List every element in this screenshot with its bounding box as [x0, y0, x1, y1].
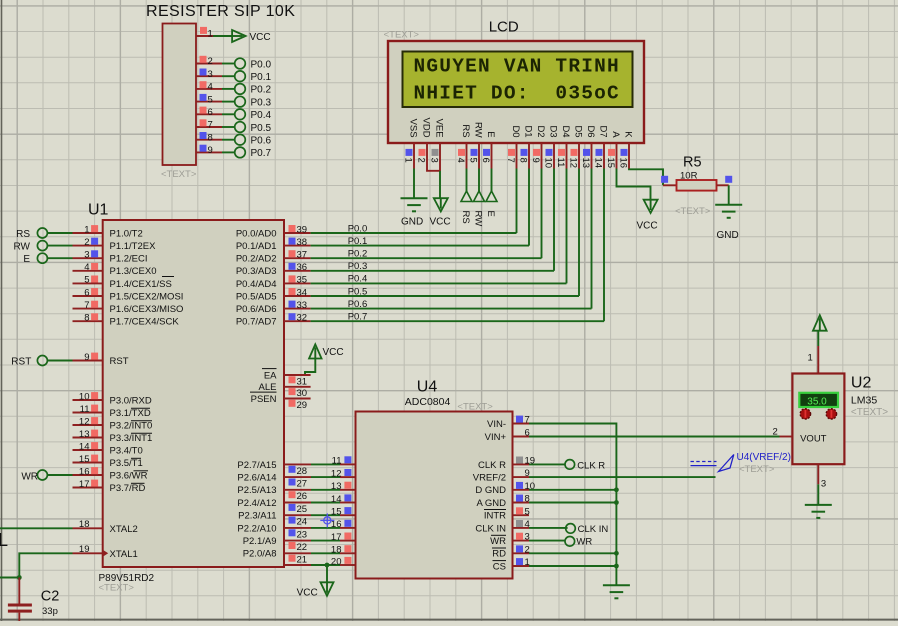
- svg-text:L: L: [0, 530, 8, 550]
- resistor RN1 pin 4: [196, 81, 222, 92]
- resistor RN1 body: [163, 24, 197, 166]
- svg-text:ALE: ALE: [259, 382, 277, 393]
- terminal E (U1 left): [23, 253, 47, 265]
- display LCD1 pin 4 (RS): [455, 124, 471, 168]
- svg-text:XTAL1: XTAL1: [110, 549, 138, 560]
- wire RN1 pin 7 to terminal P0.5: [222, 126, 235, 128]
- U1 pin 32 (P0.7/AD7): [236, 313, 311, 328]
- svg-text:35: 35: [297, 275, 308, 286]
- U1 pin 30 (ALE): [259, 382, 311, 399]
- svg-text:U4: U4: [417, 379, 438, 396]
- origin marker (blue crosshair): [320, 513, 334, 527]
- wire P0.0 net: [311, 232, 517, 234]
- wire LCD D2 to P0.2 vertical: [541, 169, 543, 259]
- svg-text:6: 6: [208, 107, 213, 118]
- svg-text:VCC: VCC: [323, 347, 344, 358]
- svg-text:19: 19: [79, 544, 90, 555]
- terminal RST: [11, 356, 47, 368]
- U2 pin 3: [818, 464, 826, 489]
- svg-text:P0.5: P0.5: [251, 123, 272, 134]
- U4 pin 18 (DB0(LSB)): [331, 545, 405, 560]
- svg-text:P1.3/CEX0: P1.3/CEX0: [110, 266, 157, 277]
- display LCD1 screen: [403, 52, 633, 108]
- svg-text:5: 5: [525, 506, 530, 517]
- svg-text:P2.6/A14: P2.6/A14: [237, 473, 276, 484]
- terminal RS (U1 left): [16, 228, 47, 240]
- svg-text:2: 2: [208, 56, 213, 67]
- U4 pin 16 (DB2): [331, 519, 381, 534]
- wire P0.5 net: [311, 295, 579, 297]
- terminal P0.2 (SIP): [235, 84, 272, 96]
- terminal P0.3 (SIP): [235, 96, 272, 108]
- U1 pin 29 (PSEN): [251, 394, 311, 411]
- U1 pin 16 (P3.6/WR): [73, 466, 148, 481]
- svg-text:P2.5/A13: P2.5/A13: [237, 485, 276, 496]
- svg-text:P0.4: P0.4: [348, 274, 368, 285]
- svg-text:U2: U2: [851, 375, 872, 392]
- overline INT1: [131, 432, 152, 434]
- svg-text:D5: D5: [573, 125, 584, 137]
- terminal P0.0 (SIP): [235, 58, 272, 70]
- svg-text:P0.1: P0.1: [348, 236, 368, 247]
- wire terminal WR to U1 pin 16: [47, 474, 72, 476]
- U4 pin 7 (VIN-): [487, 415, 530, 430]
- U4 pin 12 (DB6): [331, 468, 381, 483]
- svg-text:8: 8: [208, 132, 213, 143]
- svg-text:<TEXT>: <TEXT>: [851, 407, 888, 418]
- terminal P0.4 (SIP): [235, 109, 272, 121]
- svg-text:RD: RD: [492, 549, 506, 560]
- wire VCC to EA: [305, 359, 315, 376]
- svg-text:VIN-: VIN-: [487, 419, 506, 430]
- svg-text:34: 34: [297, 287, 308, 298]
- U2 down knob: [826, 409, 836, 419]
- svg-text:P0.6: P0.6: [348, 299, 368, 310]
- svg-text:P2.2/A10: P2.2/A10: [237, 523, 276, 534]
- wire LCD D3 to P0.3 vertical: [553, 169, 555, 271]
- overline TXD: [131, 407, 150, 409]
- wire LCD RW to terminal: [478, 169, 480, 192]
- svg-text:P0.4/AD4: P0.4/AD4: [236, 279, 277, 290]
- svg-text:P0.4: P0.4: [251, 110, 272, 121]
- U4 pin 3 (WR): [490, 532, 530, 547]
- wire terminal RW to U1 pin 2: [47, 245, 72, 247]
- svg-text:14: 14: [592, 158, 603, 169]
- U1 pin 13 (P3.3/INT1): [73, 429, 153, 444]
- svg-text:3: 3: [428, 158, 439, 163]
- svg-text:WR: WR: [490, 536, 506, 547]
- power terminal VCC (U4): [297, 582, 334, 598]
- overline INTR: [484, 509, 506, 511]
- svg-text:P0.7/AD7: P0.7/AD7: [236, 317, 277, 328]
- svg-text:18: 18: [331, 545, 342, 556]
- U1 pin 31 (EA): [264, 370, 311, 387]
- svg-text:D GND: D GND: [475, 485, 506, 496]
- svg-text:P2.4/A12: P2.4/A12: [237, 498, 276, 509]
- wire P0.7 net: [311, 320, 604, 322]
- svg-text:35.0: 35.0: [807, 396, 827, 407]
- svg-text:EA: EA: [264, 370, 277, 381]
- U4 pin 4 (CLK IN): [475, 519, 529, 534]
- terminal P0.7 (SIP): [235, 147, 272, 159]
- svg-text:P3.6/WR: P3.6/WR: [110, 470, 148, 481]
- U1 pin 25 (P2.4/A12): [237, 498, 307, 515]
- svg-text:RESISTER SIP 10K: RESISTER SIP 10K: [146, 3, 295, 20]
- resistor RN1 pin 2: [196, 56, 222, 67]
- U1 pin 5 (P1.4/CEX1/SS): [73, 275, 172, 290]
- svg-text:P2.3/A11: P2.3/A11: [238, 511, 276, 522]
- display LCD1 pin 14 (D7): [592, 125, 608, 168]
- resistor RN1 pin 1: [196, 27, 213, 40]
- wire CS to bus: [529, 565, 616, 567]
- junction C2/XTAL1: [17, 575, 22, 580]
- svg-text:18: 18: [79, 519, 90, 530]
- wire RN1 pin 4 to terminal P0.2: [222, 88, 235, 90]
- display LCD1 pin 8 (D1): [517, 125, 533, 168]
- wire terminal RST to U1 pin 9: [47, 360, 72, 362]
- svg-text:3: 3: [821, 478, 826, 489]
- svg-text:16: 16: [617, 158, 628, 169]
- svg-text:P0.3: P0.3: [348, 261, 368, 272]
- ground symbol (R5): [715, 205, 742, 241]
- resistor R5 left pin: [663, 184, 677, 186]
- wire RN1 pin 2 to terminal P0.0: [222, 63, 235, 65]
- svg-text:E: E: [485, 131, 496, 137]
- svg-text:C2: C2: [41, 589, 60, 605]
- resistor RN1 pin 9: [196, 145, 222, 156]
- U1 pin 6 (P1.5/CEX2/MOSI): [73, 287, 184, 302]
- U1 pin 1 (P1.0/T2): [73, 224, 143, 239]
- U4 pin 9 (VREF/2): [473, 468, 530, 483]
- wire U1 P2 to U4 DB row 5: [284, 527, 356, 529]
- svg-text:5: 5: [84, 275, 89, 286]
- terminal RS (below LCD): [460, 191, 472, 224]
- svg-text:4: 4: [208, 82, 213, 93]
- svg-text:14: 14: [331, 494, 342, 505]
- wire VREF/2: [529, 476, 716, 478]
- svg-text:12: 12: [331, 468, 342, 479]
- wire U1 P2 to U4 DB row 4: [284, 514, 356, 516]
- U4 pin 17 (DB1): [331, 532, 381, 547]
- svg-text:P0.2: P0.2: [348, 249, 368, 260]
- wire P0.3 net: [311, 270, 554, 272]
- U2 up knob: [800, 409, 810, 419]
- power terminal VCC (LCD backlight A): [637, 200, 658, 232]
- wire LCD D1 to P0.1 vertical: [528, 169, 530, 246]
- svg-text:VIN+: VIN+: [485, 432, 507, 443]
- display LCD1 pin 3 (VEE): [428, 119, 444, 169]
- U1 pin 11 (P3.1/TXD): [73, 404, 151, 419]
- U1 pin 22 (P2.1/A9): [243, 536, 307, 553]
- resistor RN1 pin 7: [196, 119, 222, 130]
- U1 pin 34 (P0.5/AD5): [236, 287, 311, 302]
- svg-text:CS: CS: [493, 561, 506, 572]
- U2 pin 2 (VOUT): [773, 426, 793, 437]
- svg-text:27: 27: [297, 479, 308, 490]
- U1 pin 15 (P3.5/T1): [73, 454, 143, 469]
- svg-text:16: 16: [79, 466, 90, 477]
- overline CS (U4): [493, 560, 507, 562]
- svg-text:VCC: VCC: [297, 588, 318, 599]
- U1 pin 27 (P2.6/A14): [237, 473, 307, 490]
- wire LCD D0 to P0.0 vertical: [516, 169, 518, 234]
- overline WR (U4): [491, 534, 506, 536]
- U4 pin 11 (DB7(MSB)): [332, 456, 408, 471]
- terminal P0.6 (SIP): [235, 134, 272, 146]
- svg-text:7: 7: [84, 300, 89, 311]
- svg-text:CLK R: CLK R: [577, 460, 605, 471]
- wire LCD D7 to P0.7 vertical: [603, 169, 605, 322]
- svg-text:P3.2/INT0: P3.2/INT0: [110, 420, 153, 431]
- transducer U2 body LM35: [792, 374, 844, 465]
- wire LCD D6 to P0.6 vertical: [591, 169, 593, 309]
- U1 pin 8 (P1.7/CEX4/SCK): [73, 313, 180, 328]
- U1 pin 21 (P2.0/A8): [243, 549, 307, 566]
- wire RN1 pin 8 to terminal P0.6: [222, 139, 235, 141]
- resistor RN1 pin 3: [196, 69, 222, 80]
- wire LCD RS to terminal: [466, 169, 468, 192]
- svg-text:RS: RS: [16, 229, 30, 240]
- terminal P0.5 (SIP): [235, 122, 272, 134]
- display LCD1 pin 16 (K): [617, 131, 633, 168]
- overline INT0: [131, 420, 152, 422]
- wire RN1 pin 5 to terminal P0.3: [222, 101, 235, 103]
- wire LCD VSS to GND: [413, 169, 415, 199]
- svg-text:E: E: [23, 254, 30, 265]
- wire LCD A to VCC: [617, 169, 651, 201]
- overline SS (P1.4/CEX1/SS): [162, 276, 174, 278]
- svg-text:E: E: [485, 211, 496, 217]
- wire XTAL2 to left edge: [0, 527, 73, 529]
- svg-text:A GND: A GND: [476, 498, 506, 509]
- wire VCC to LM35 pin 1: [817, 331, 819, 346]
- wire left edge to C2 junction: [0, 577, 19, 579]
- svg-text:10: 10: [542, 158, 553, 169]
- svg-text:LCD: LCD: [489, 19, 519, 36]
- U2 display: [799, 393, 838, 408]
- svg-text:30: 30: [297, 388, 308, 399]
- overline WR: [134, 470, 149, 472]
- svg-text:VREF/2: VREF/2: [473, 473, 506, 484]
- svg-text:5: 5: [208, 94, 213, 105]
- svg-text:P0.3: P0.3: [251, 97, 272, 108]
- display LCD1 pin 10 (D3): [542, 125, 558, 168]
- svg-text:D6: D6: [585, 125, 596, 137]
- svg-text:P1.6/CEX3/MISO: P1.6/CEX3/MISO: [110, 304, 184, 315]
- svg-text:VCC: VCC: [430, 217, 451, 228]
- wire VIN- to ground bus: [529, 424, 616, 586]
- wire U2 pin 3 to GND: [817, 484, 819, 504]
- svg-text:D4: D4: [560, 125, 571, 137]
- resistor R5 body: [677, 180, 717, 191]
- svg-text:RST: RST: [11, 356, 31, 367]
- wire RN1 pin1 to VCC: [213, 35, 233, 37]
- svg-text:NHIET DO: 035oC: NHIET DO: 035oC: [414, 83, 620, 105]
- U1 pin 38 (P0.1/AD1): [236, 237, 311, 252]
- wire CLK R to terminal: [529, 463, 565, 465]
- svg-text:4: 4: [84, 262, 89, 273]
- svg-text:13: 13: [580, 158, 591, 169]
- svg-text:VDD: VDD: [421, 118, 432, 138]
- svg-text:1: 1: [208, 29, 213, 40]
- display LCD1 pin 2 (VDD): [415, 118, 431, 169]
- svg-text:P0.7: P0.7: [348, 312, 368, 323]
- svg-text:14: 14: [79, 441, 90, 452]
- svg-text:26: 26: [297, 491, 308, 502]
- svg-text:P0.3/AD3: P0.3/AD3: [236, 266, 277, 277]
- U1 pin 19 (XTAL1): [73, 544, 138, 560]
- power terminal VCC (EA): [309, 344, 344, 358]
- wire RN1 pin 3 to terminal P0.1: [222, 75, 235, 77]
- terminal CLK IN: [566, 524, 609, 535]
- U1 pin 12 (P3.2/INT0): [73, 416, 153, 431]
- junction A GND: [614, 500, 619, 505]
- U4 pin 10 (D GND): [475, 481, 535, 496]
- wire terminal RS to U1 pin 1: [47, 232, 72, 234]
- svg-text:D0: D0: [510, 125, 521, 137]
- U1 pin 23 (P2.2/A10): [237, 523, 307, 540]
- svg-text:3: 3: [84, 250, 89, 261]
- svg-text:VEE: VEE: [434, 119, 445, 138]
- svg-text:10: 10: [79, 391, 90, 402]
- overline RD: [131, 482, 145, 484]
- overline T1: [131, 457, 141, 459]
- svg-text:11: 11: [332, 456, 342, 467]
- svg-text:6: 6: [84, 287, 89, 298]
- svg-text:5: 5: [467, 158, 478, 163]
- svg-text:2: 2: [773, 426, 778, 437]
- terminal E (below LCD): [485, 191, 497, 217]
- svg-text:P0.7: P0.7: [251, 148, 272, 159]
- wire RN1 pin 6 to terminal P0.4: [222, 113, 235, 115]
- svg-text:P0.0/AD0: P0.0/AD0: [236, 228, 277, 239]
- resistor R5 right pin: [717, 184, 729, 186]
- wire P0.4 net: [311, 282, 567, 284]
- wire RD to bus: [529, 552, 616, 554]
- svg-text:<TEXT>: <TEXT>: [161, 169, 197, 180]
- ground symbol (LCD VSS): [401, 198, 428, 227]
- junction U4 VCC drop: [325, 563, 330, 568]
- svg-text:38: 38: [297, 237, 308, 248]
- display LCD1 body: [388, 41, 644, 143]
- wire LCD VDD/VEE to VCC: [427, 169, 440, 171]
- svg-text:33p: 33p: [42, 606, 58, 617]
- svg-text:P2.7/A15: P2.7/A15: [237, 460, 276, 471]
- wire LCD D5 to P0.5 vertical: [578, 169, 580, 297]
- svg-text:P3.7/RD: P3.7/RD: [110, 483, 146, 494]
- svg-text:WR: WR: [576, 537, 592, 548]
- svg-text:LM35: LM35: [851, 394, 877, 406]
- U1 pin 18 (XTAL2): [73, 519, 138, 535]
- display LCD1 pin 9 (D2): [530, 125, 546, 168]
- svg-text:<TEXT>: <TEXT>: [675, 206, 711, 217]
- terminal WR (U4): [565, 537, 592, 548]
- overline RD (U4): [492, 547, 506, 549]
- svg-text:RST: RST: [110, 356, 129, 367]
- svg-text:P1.5/CEX2/MOSI: P1.5/CEX2/MOSI: [110, 291, 184, 302]
- U4 pin 1 (CS): [493, 557, 530, 572]
- U1 pin 14 (P3.4/T0): [73, 441, 143, 456]
- svg-text:P1.2/ECI: P1.2/ECI: [110, 254, 148, 265]
- svg-text:15: 15: [605, 158, 616, 169]
- svg-text:P0.2/AD2: P0.2/AD2: [236, 254, 277, 265]
- svg-text:P0.1: P0.1: [251, 72, 272, 83]
- wire R5 to GND: [728, 185, 730, 204]
- svg-text:7: 7: [505, 158, 516, 163]
- svg-text:RS: RS: [460, 124, 471, 137]
- wire D GND to bus: [529, 489, 616, 491]
- ground symbol (LM35): [805, 505, 832, 518]
- wire terminal E to U1 pin 3: [47, 257, 72, 259]
- node square at R5 left: [661, 176, 668, 183]
- svg-text:36: 36: [297, 262, 308, 273]
- svg-text:1: 1: [84, 224, 89, 235]
- U1 pin 3 (P1.2/ECI): [73, 250, 148, 265]
- svg-text:33: 33: [297, 300, 308, 311]
- display LCD1 pin 12 (D5): [567, 125, 583, 168]
- svg-text:P2.1/A9: P2.1/A9: [243, 536, 277, 547]
- svg-text:3: 3: [208, 69, 213, 80]
- U1 pin 37 (P0.2/AD2): [236, 250, 311, 265]
- U4 pin 6 (VIN+): [485, 428, 530, 443]
- svg-text:<TEXT>: <TEXT>: [384, 30, 420, 41]
- wire U1 P2 to U4 DB row 1: [284, 476, 356, 478]
- U1 pin 7 (P1.6/CEX3/MISO): [73, 300, 184, 315]
- wire U1 P2 to U4 DB row 6: [284, 540, 356, 542]
- svg-text:9: 9: [208, 145, 213, 156]
- svg-text:P0.5: P0.5: [348, 286, 368, 297]
- power terminal VCC (SIP): [232, 30, 271, 43]
- svg-text:11: 11: [555, 158, 566, 168]
- wire WR to terminal: [529, 540, 565, 542]
- svg-text:39: 39: [297, 224, 308, 235]
- terminal WR (U1 left): [21, 470, 47, 482]
- svg-text:9: 9: [84, 352, 89, 363]
- overline PSEN: [250, 391, 277, 393]
- svg-text:PSEN: PSEN: [251, 394, 277, 405]
- wire LCD D4 to P0.4 vertical: [566, 169, 568, 284]
- svg-text:4: 4: [455, 158, 466, 163]
- display LCD1 pin 1 (VSS): [402, 119, 418, 169]
- svg-text:P1.1/T2EX: P1.1/T2EX: [110, 241, 157, 252]
- svg-text:17: 17: [331, 532, 342, 543]
- op-amp U1 body P89V51RD2: [103, 220, 284, 567]
- svg-text:P2.0/A8: P2.0/A8: [243, 549, 277, 560]
- svg-text:D3: D3: [548, 125, 559, 137]
- U1 pin 26 (P2.5/A13): [237, 485, 307, 502]
- terminal CLK R: [565, 460, 605, 472]
- wire RN1 pin 9 to terminal P0.7: [222, 151, 235, 153]
- wire P0.1 net: [311, 245, 529, 247]
- wire P0.6 net: [311, 308, 592, 310]
- junction D GND: [614, 487, 619, 492]
- svg-text:P3.0/RXD: P3.0/RXD: [110, 395, 152, 406]
- svg-text:7: 7: [208, 120, 213, 131]
- terminal P0.1 (SIP): [235, 71, 272, 83]
- svg-text:WR: WR: [21, 471, 38, 482]
- U1 pin 9 (RST): [73, 352, 129, 367]
- U1 pin 10 (P3.0/RXD): [73, 391, 152, 406]
- U2 pin 1: [808, 346, 819, 374]
- display LCD1 pin 13 (D6): [580, 125, 596, 168]
- svg-text:RW: RW: [473, 211, 484, 227]
- display LCD1 pin 6 (E): [480, 131, 496, 168]
- svg-text:P0.1/AD1: P0.1/AD1: [236, 241, 277, 252]
- wire U1 P2 to U4 DB row 0: [284, 463, 356, 465]
- wire VIN+ to LM35 VOUT: [529, 436, 780, 438]
- wire U4 VCC to arrow: [326, 565, 328, 583]
- svg-text:RS: RS: [460, 211, 471, 224]
